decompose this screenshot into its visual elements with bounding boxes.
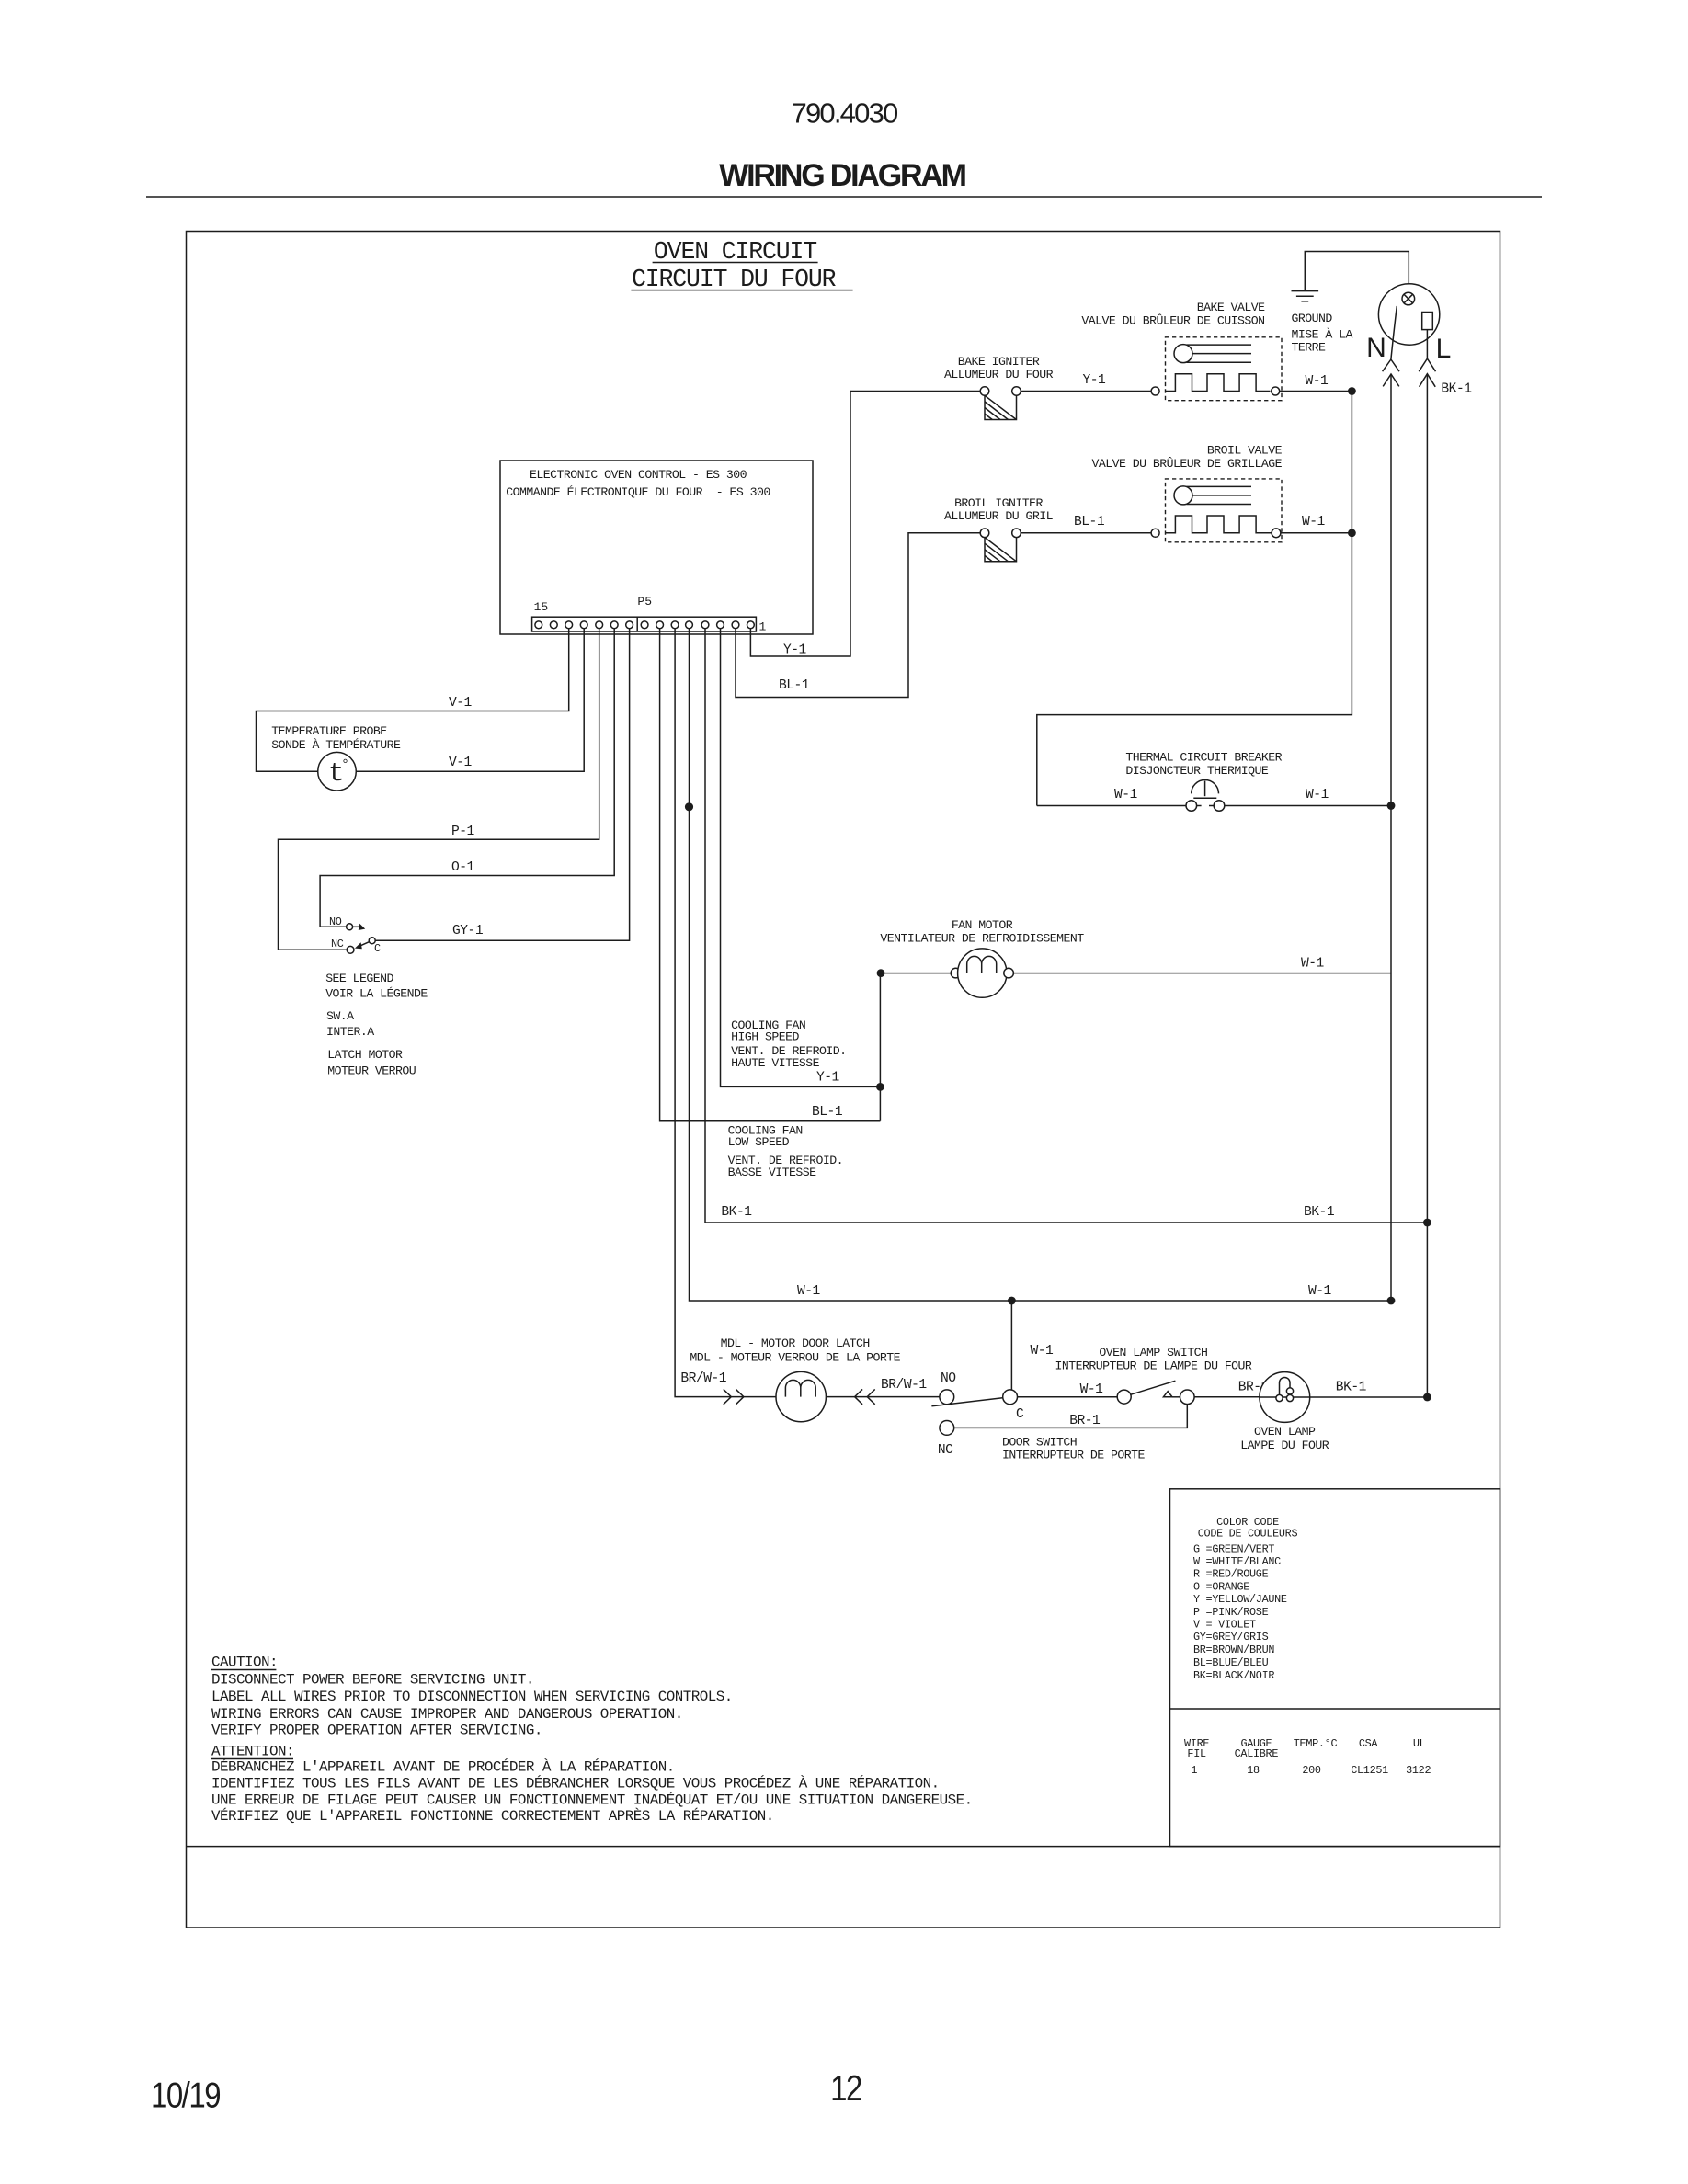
svg-text:BR=BROWN/BRUN: BR=BROWN/BRUN	[1193, 1644, 1274, 1656]
svg-text:TEMPERATURE PROBE: TEMPERATURE PROBE	[271, 724, 387, 738]
wire bake igniter to valve	[1021, 391, 1151, 392]
svg-text:DISJONCTEUR THERMIQUE: DISJONCTEUR THERMIQUE	[1125, 764, 1268, 778]
svg-text:INTERRUPTEUR DE PORTE: INTERRUPTEUR DE PORTE	[1002, 1449, 1145, 1462]
svg-text:CSA: CSA	[1359, 1737, 1379, 1750]
door switch NO contact	[940, 1390, 954, 1405]
svg-text:BASSE VITESSE: BASSE VITESSE	[728, 1166, 816, 1179]
broil valve right terminal	[1272, 529, 1281, 538]
svg-text:BAKE VALVE: BAKE VALVE	[1197, 301, 1265, 314]
svg-text:BK-1: BK-1	[721, 1205, 752, 1220]
svg-text:C: C	[374, 942, 381, 955]
broil igniter hatched body	[985, 538, 1017, 562]
plug body circle	[1378, 284, 1439, 345]
svg-text:°: °	[341, 757, 349, 773]
inner footer separator line	[187, 1846, 1500, 1848]
svg-text:DISCONNECT POWER BEFORE SERVIC: DISCONNECT POWER BEFORE SERVICING UNIT.	[211, 1671, 534, 1688]
svg-text:P-1: P-1	[451, 825, 475, 839]
wire BK-1 pin4 to L bus	[705, 629, 1427, 1223]
svg-text:BL=BLUE/BLEU: BL=BLUE/BLEU	[1193, 1656, 1269, 1669]
svg-text:DÉBRANCHEZ L'APPAREIL AVANT DE: DÉBRANCHEZ L'APPAREIL AVANT DE PROCÉDER …	[211, 1758, 675, 1776]
svg-text:CALIBRE: CALIBRE	[1235, 1747, 1279, 1760]
thermal circuit breaker CB1	[1192, 779, 1219, 798]
svg-text:SONDE À TEMPÉRATURE: SONDE À TEMPÉRATURE	[271, 738, 401, 752]
svg-text:DOOR SWITCH: DOOR SWITCH	[1002, 1436, 1077, 1450]
svg-text:THERMAL CIRCUIT BREAKER: THERMAL CIRCUIT BREAKER	[1125, 751, 1282, 765]
svg-text:Y =YELLOW/JAUNE: Y =YELLOW/JAUNE	[1193, 1593, 1287, 1606]
door switch common contact	[1003, 1390, 1018, 1405]
svg-text:BL-1: BL-1	[812, 1105, 843, 1120]
wire P-1 pin11 to latch switch NC	[279, 629, 599, 950]
junction broil W-1	[1348, 529, 1356, 537]
wire bake valve to W bus	[1280, 391, 1352, 392]
svg-text:OVEN LAMP: OVEN LAMP	[1254, 1425, 1316, 1439]
svg-text:BR/W-1: BR/W-1	[680, 1371, 726, 1386]
svg-text:COMMANDE ÉLECTRONIQUE DU FOUR: COMMANDE ÉLECTRONIQUE DU FOUR - ES 300	[506, 485, 770, 499]
connector divider	[636, 617, 638, 631]
wire ground to plug top	[1305, 252, 1409, 293]
door switch NC contact	[940, 1421, 954, 1436]
EOC control box U1	[500, 461, 813, 634]
svg-text:MDL - MOTOR DOOR LATCH: MDL - MOTOR DOOR LATCH	[721, 1337, 870, 1350]
svg-text:LOW SPEED: LOW SPEED	[728, 1135, 790, 1149]
color code divider	[1170, 1708, 1500, 1710]
svg-text:W-1: W-1	[1306, 374, 1329, 389]
svg-text:HAUTE VITESSE: HAUTE VITESSE	[731, 1056, 819, 1070]
svg-text:NC: NC	[331, 938, 344, 950]
broil valve L2 dashed box	[1166, 479, 1283, 542]
broil valve solenoid coil	[1166, 516, 1272, 533]
wire broil igniter to valve	[1021, 532, 1151, 534]
wire fan speed riser	[879, 973, 881, 1121]
svg-text:UNE ERREUR DE FILAGE PEUT CAUS: UNE ERREUR DE FILAGE PEUT CAUSER UN FONC…	[211, 1791, 973, 1808]
N disconnect arrow lower	[1383, 374, 1399, 386]
svg-text:MDL - MOTEUR VERROU DE LA PORT: MDL - MOTEUR VERROU DE LA PORTE	[690, 1350, 900, 1364]
N bus wire	[1390, 374, 1392, 1301]
wire MDL motor to door switch NO	[826, 1396, 940, 1398]
svg-text:V-1: V-1	[449, 756, 473, 770]
L bus wire	[1426, 374, 1428, 1397]
svg-text:BL-1: BL-1	[1074, 515, 1105, 529]
junction Y-1	[876, 1083, 884, 1091]
svg-text:VENTILATEUR DE REFROIDISSEMENT: VENTILATEUR DE REFROIDISSEMENT	[880, 932, 1084, 946]
oven lamp DS1	[1260, 1372, 1310, 1423]
bake valve left terminal	[1151, 387, 1159, 395]
fan motor M1	[951, 968, 961, 978]
main border box	[187, 232, 1500, 1928]
svg-text:WIRING DIAGRAM: WIRING DIAGRAM	[719, 158, 965, 193]
svg-text:C: C	[1016, 1407, 1024, 1422]
svg-text:CIRCUIT DU FOUR: CIRCUIT DU FOUR	[632, 266, 837, 293]
latch switch NO contact	[347, 924, 353, 930]
svg-text:Y-1: Y-1	[816, 1071, 840, 1086]
svg-text:ALLUMEUR DU GRIL: ALLUMEUR DU GRIL	[944, 509, 1054, 523]
svg-text:ALLUMEUR DU FOUR: ALLUMEUR DU FOUR	[944, 368, 1054, 381]
svg-text:W-1: W-1	[1114, 788, 1138, 802]
bake valve solenoid coil	[1166, 374, 1271, 392]
svg-text:VALVE DU BRÛLEUR DE GRILLAGE: VALVE DU BRÛLEUR DE GRILLAGE	[1092, 457, 1283, 471]
connector chevrons	[724, 1389, 744, 1404]
svg-text:BL-1: BL-1	[779, 678, 810, 693]
svg-text:W-1: W-1	[1308, 1284, 1332, 1299]
svg-text:GY-1: GY-1	[452, 924, 484, 938]
bake valve gas lines	[1187, 344, 1252, 346]
junction bake W-1	[1348, 387, 1356, 395]
wire BR/W-1 pin6 to MDL motor	[675, 629, 776, 1397]
plug ground pin circle-X	[1402, 292, 1415, 305]
svg-text:GY=GREY/GRIS: GY=GREY/GRIS	[1193, 1631, 1269, 1644]
svg-text:VÉRIFIEZ QUE L'APPAREIL FONCTI: VÉRIFIEZ QUE L'APPAREIL FONCTIONNE CORRE…	[211, 1807, 774, 1825]
svg-text:NO: NO	[329, 916, 342, 928]
svg-text:R =RED/ROUGE: R =RED/ROUGE	[1193, 1568, 1269, 1581]
N disconnect chevron upper	[1383, 359, 1399, 371]
latch switch common contact	[369, 938, 375, 944]
wire Y-1 pin1 to bake igniter	[750, 392, 980, 657]
bake valve right terminal (bold)	[1272, 387, 1280, 395]
wire O-1 pin10 to latch switch NO	[320, 629, 614, 927]
svg-text:BAKE IGNITER: BAKE IGNITER	[958, 355, 1040, 369]
svg-text:VALVE DU BRÛLEUR DE CUISSON: VALVE DU BRÛLEUR DE CUISSON	[1081, 314, 1264, 328]
svg-text:O-1: O-1	[451, 860, 475, 875]
svg-text:BK-1: BK-1	[1441, 382, 1472, 397]
svg-text:FIL: FIL	[1187, 1747, 1206, 1760]
svg-text:BK-1: BK-1	[1336, 1381, 1367, 1395]
wire door switch common to lamp switch	[1018, 1396, 1118, 1398]
pin circles	[535, 621, 754, 629]
svg-text:CAUTION:: CAUTION:	[211, 1655, 278, 1671]
latch switch blade	[358, 942, 369, 948]
junction W-1 N bus	[1387, 1297, 1396, 1305]
svg-text:BR/W-1: BR/W-1	[881, 1378, 927, 1393]
temperature probe RT1	[318, 752, 357, 791]
wire NC to lamp switch BR-1	[954, 1405, 1188, 1428]
svg-text:NO: NO	[941, 1371, 956, 1386]
svg-text:W-1: W-1	[1031, 1344, 1055, 1359]
svg-text:GROUND: GROUND	[1292, 312, 1333, 325]
wire V-1 pin13 to probe left	[257, 629, 569, 771]
oven lamp switch blade	[1131, 1381, 1176, 1394]
wire V-1 probe to pin12	[356, 629, 584, 771]
svg-text:3122: 3122	[1406, 1764, 1431, 1777]
junction dot on pin5 wire	[685, 802, 693, 811]
svg-text:WIRING ERRORS CAN CAUSE IMPROP: WIRING ERRORS CAN CAUSE IMPROPER AND DAN…	[211, 1706, 683, 1723]
bake valve L1 dashed box	[1166, 337, 1283, 401]
svg-text:W-1: W-1	[1306, 788, 1329, 802]
connector P5 strip	[532, 617, 757, 631]
NO plunger tick	[353, 926, 362, 927]
svg-text:BR-1: BR-1	[1069, 1414, 1101, 1428]
junction BK-1 L bus	[1423, 1393, 1431, 1402]
underline	[631, 290, 852, 291]
svg-text:1: 1	[759, 620, 767, 634]
svg-text:SW.A: SW.A	[326, 1009, 354, 1023]
svg-text:LABEL ALL WIRES PRIOR TO DISCO: LABEL ALL WIRES PRIOR TO DISCONNECTION W…	[211, 1689, 733, 1705]
junction breaker N bus	[1387, 802, 1396, 810]
svg-text:P5: P5	[637, 595, 652, 609]
svg-text:NC: NC	[938, 1443, 953, 1458]
svg-text:1: 1	[1191, 1764, 1197, 1777]
svg-text:V = VIOLET: V = VIOLET	[1193, 1618, 1256, 1631]
svg-text:INTER.A: INTER.A	[326, 1025, 374, 1039]
plug N pin	[1391, 306, 1397, 359]
latch switch NC contact (bold)	[347, 946, 354, 953]
wire left feed to breaker	[1037, 805, 1186, 807]
svg-text:CODE DE COULEURS: CODE DE COULEURS	[1198, 1528, 1298, 1541]
svg-text:BK=BLACK/NOIR: BK=BLACK/NOIR	[1193, 1669, 1274, 1682]
svg-text:LAMPE DU FOUR: LAMPE DU FOUR	[1240, 1439, 1329, 1452]
MDL motor M2	[776, 1371, 826, 1421]
wire BL-1 pin2 to broil igniter	[736, 533, 980, 698]
ground symbol	[1292, 291, 1319, 301]
broil valve left terminal	[1151, 529, 1159, 537]
broil igniter E2 terminals	[980, 529, 989, 538]
svg-text:O =ORANGE: O =ORANGE	[1193, 1581, 1249, 1594]
wire Y-1 pin3 to fan junction	[721, 629, 881, 1086]
svg-text:G =GREEN/VERT: G =GREEN/VERT	[1193, 1542, 1274, 1555]
svg-text:15: 15	[534, 600, 549, 614]
svg-text:L: L	[1436, 334, 1452, 364]
header rule	[146, 196, 1542, 198]
svg-text:18: 18	[1247, 1764, 1260, 1777]
svg-text:790.4030: 790.4030	[792, 97, 898, 130]
svg-text:SEE LEGEND: SEE LEGEND	[325, 972, 393, 985]
plug L pin lead	[1426, 330, 1428, 359]
svg-text:W-1: W-1	[1080, 1382, 1104, 1397]
svg-text:Y-1: Y-1	[783, 643, 807, 658]
junction fan feed	[877, 969, 885, 977]
svg-text:W-1: W-1	[797, 1284, 821, 1299]
svg-text:P =PINK/ROSE: P =PINK/ROSE	[1193, 1606, 1269, 1619]
broil valve gas lines	[1187, 485, 1252, 487]
wire broil valve to W bus	[1281, 532, 1352, 534]
svg-text:BROIL IGNITER: BROIL IGNITER	[954, 496, 1043, 510]
svg-text:CL1251: CL1251	[1351, 1764, 1388, 1777]
svg-text:200: 200	[1302, 1764, 1321, 1777]
wire oven lamp to L bus BK-1	[1310, 1396, 1428, 1398]
wire W-1 pin5 to N bus	[690, 629, 1392, 1301]
wire W bus down to jog	[1037, 392, 1352, 806]
svg-text:TEMP.°C: TEMP.°C	[1294, 1737, 1338, 1750]
svg-text:VOIR LA LÉGENDE: VOIR LA LÉGENDE	[325, 987, 428, 1001]
svg-text:ATTENTION:: ATTENTION:	[211, 1744, 294, 1760]
svg-text:FAN MOTOR: FAN MOTOR	[952, 918, 1013, 932]
svg-text:W-1: W-1	[1302, 515, 1326, 529]
svg-text:IDENTIFIEZ TOUS LES FILS AVANT: IDENTIFIEZ TOUS LES FILS AVANT DE LES DÉ…	[211, 1775, 940, 1792]
svg-text:N: N	[1366, 333, 1386, 363]
svg-text:UL: UL	[1413, 1737, 1426, 1750]
wire breaker to N bus	[1225, 805, 1391, 807]
oven lamp switch arrow	[1163, 1392, 1172, 1397]
wire fan motor to N bus W-1	[1013, 973, 1391, 974]
door switch blade	[931, 1398, 1002, 1406]
junction W-1 door switch riser	[1008, 1297, 1016, 1305]
wire lamp switch to oven lamp	[1194, 1396, 1260, 1398]
svg-text:OVEN CIRCUIT: OVEN CIRCUIT	[654, 238, 816, 266]
svg-text:MISE À LA: MISE À LA	[1292, 328, 1353, 342]
svg-text:Y-1: Y-1	[1083, 373, 1107, 388]
wire GY-1 common to pin9	[375, 629, 629, 940]
svg-text:INTERRUPTEUR DE LAMPE DU FOUR: INTERRUPTEUR DE LAMPE DU FOUR	[1055, 1359, 1251, 1373]
bake igniter hatched body	[985, 395, 1017, 419]
svg-text:HIGH SPEED: HIGH SPEED	[731, 1029, 799, 1043]
svg-text:MOTEUR VERROU: MOTEUR VERROU	[327, 1064, 416, 1077]
svg-text:LATCH MOTOR: LATCH MOTOR	[327, 1048, 403, 1062]
wire W-1 junction to door switch common	[1010, 1301, 1012, 1390]
svg-text:BK-1: BK-1	[1304, 1205, 1335, 1220]
svg-text:ELECTRONIC OVEN CONTROL - ES 3: ELECTRONIC OVEN CONTROL - ES 300	[530, 468, 747, 482]
svg-text:10/19: 10/19	[151, 2075, 221, 2115]
wire BL-1 pin7 to fan riser	[660, 629, 881, 1121]
svg-text:12: 12	[830, 2067, 861, 2108]
wire junction to fan motor	[881, 973, 951, 974]
svg-text:W-1: W-1	[1301, 957, 1325, 972]
oven lamp switch left contact	[1117, 1390, 1131, 1404]
L disconnect chevron upper	[1419, 358, 1435, 371]
svg-text:OVEN LAMP SWITCH: OVEN LAMP SWITCH	[1099, 1346, 1207, 1359]
svg-text:VERIFY PROPER OPERATION AFTER: VERIFY PROPER OPERATION AFTER SERVICING.	[211, 1723, 542, 1739]
svg-text:V-1: V-1	[449, 696, 473, 711]
svg-text:BROIL VALVE: BROIL VALVE	[1207, 444, 1283, 458]
oven lamp switch right contact	[1180, 1390, 1195, 1405]
svg-text:TERRE: TERRE	[1292, 341, 1326, 355]
color code box	[1170, 1489, 1500, 1847]
underline	[653, 262, 818, 264]
plug L pin rectangle	[1422, 313, 1433, 330]
connector chevrons	[855, 1389, 875, 1404]
L disconnect arrow lower	[1420, 374, 1436, 387]
bake igniter E1 terminals	[980, 387, 989, 396]
broil valve pilot circle	[1174, 486, 1192, 505]
bake valve pilot circle	[1174, 345, 1192, 363]
svg-text:W =WHITE/BLANC: W =WHITE/BLANC	[1193, 1555, 1281, 1568]
junction BK-1 L bus	[1423, 1219, 1431, 1227]
